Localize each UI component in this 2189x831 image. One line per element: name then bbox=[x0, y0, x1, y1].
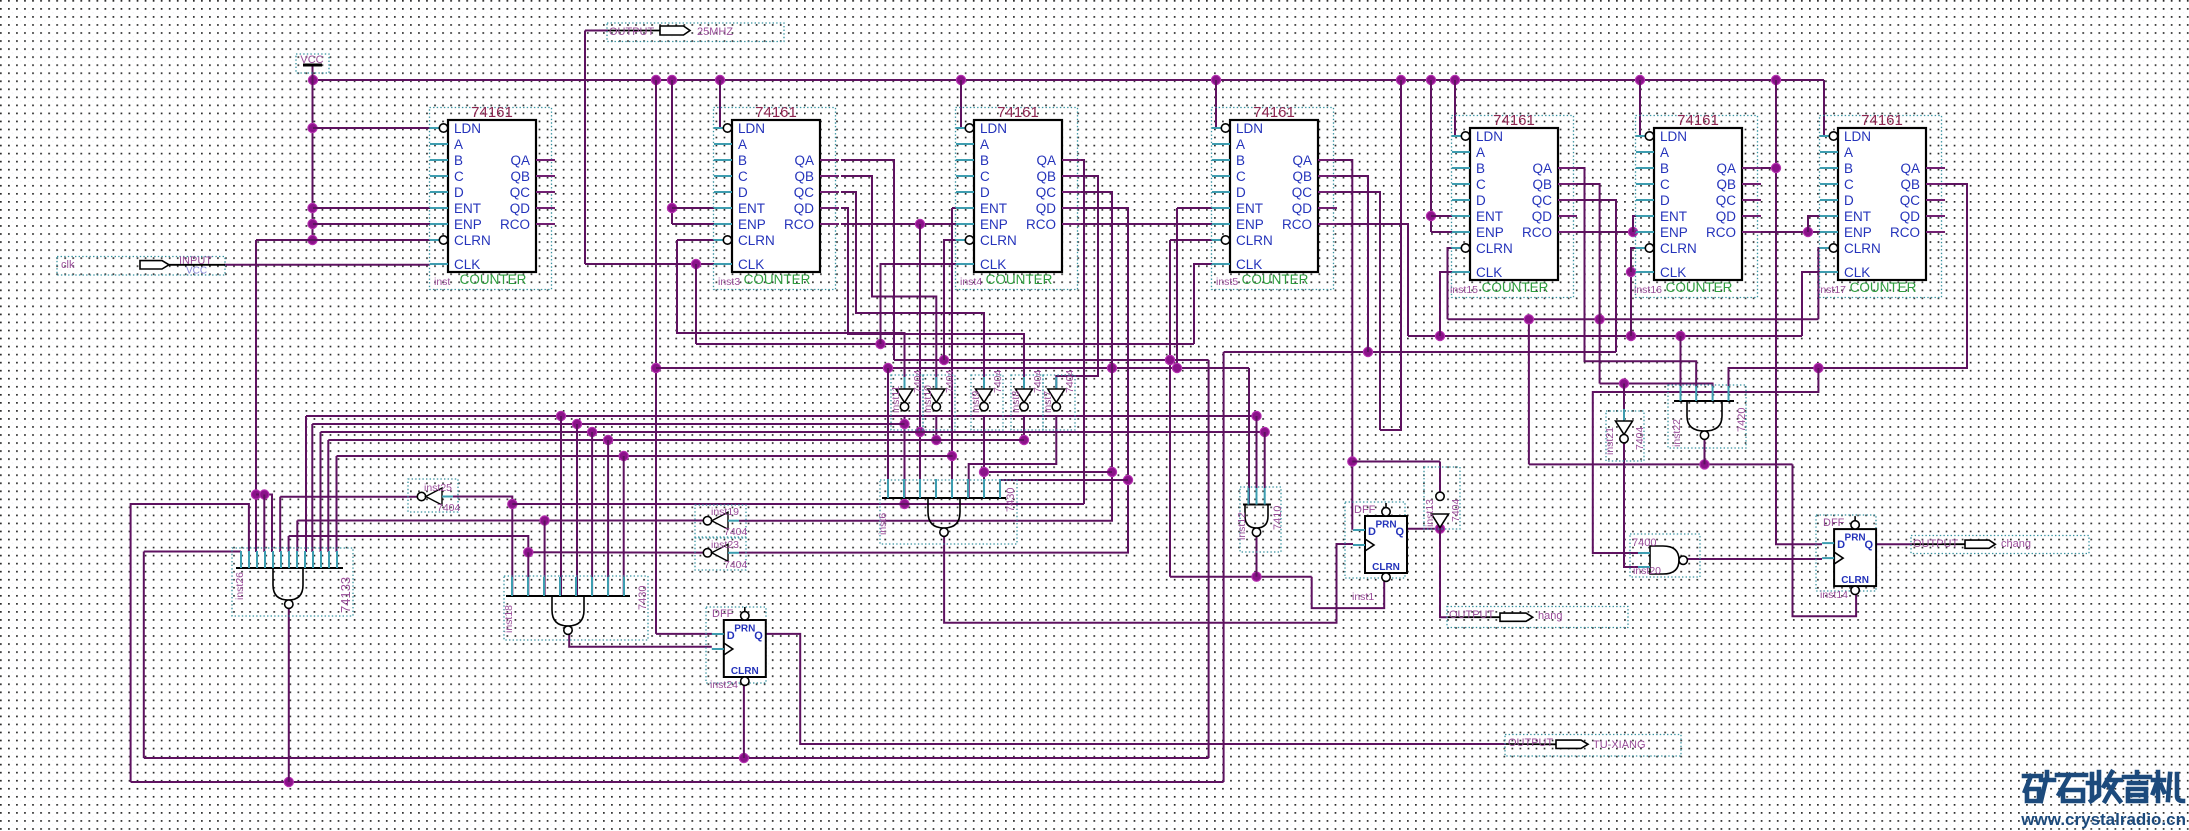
svg-text:inst24: inst24 bbox=[710, 679, 738, 691]
wire QA15 net bbox=[1577, 168, 1696, 387]
wire tuxiang connector lead bbox=[1506, 743, 1556, 745]
junction r368c bbox=[1107, 363, 1116, 372]
svg-text:inst: inst bbox=[434, 276, 450, 288]
wire 74133 out bbox=[288, 608, 290, 782]
svg-text:www.crystalradio.cn: www.crystalradio.cn bbox=[2020, 810, 2186, 829]
wire chang connector lead bbox=[1912, 543, 1965, 545]
svg-text:inst22: inst22 bbox=[1671, 419, 1683, 447]
wire inst12 s3 drop bbox=[1264, 432, 1266, 488]
svg-text:inst14: inst14 bbox=[1820, 589, 1848, 601]
wire row758 bbox=[144, 757, 1209, 759]
wire s4-133 drop bbox=[263, 495, 265, 553]
not 7404 inst21 bbox=[1604, 409, 1646, 461]
wire LDN5 feed bbox=[1216, 80, 1219, 128]
wire ENP3 bbox=[672, 223, 714, 225]
wire row536 bbox=[289, 536, 529, 552]
not 7404 inst8 bbox=[1010, 369, 1044, 430]
wire row576 bbox=[1170, 576, 1312, 578]
wire inst25 out bbox=[280, 496, 417, 498]
wire RCO4-ENP5 bbox=[1081, 223, 1212, 225]
wire riser1224 bbox=[1223, 352, 1225, 782]
wire QA4 net bbox=[1081, 160, 1084, 504]
junction i9 bbox=[979, 467, 988, 476]
wire CLRN1 feed bbox=[256, 239, 437, 241]
wire inst20 out bbox=[1687, 558, 1822, 560]
wire QA5 net bbox=[1337, 160, 1353, 529]
wire inst7 out bbox=[969, 416, 1057, 498]
junction qa16 bbox=[1771, 163, 1780, 172]
not 7404 inst11 bbox=[890, 369, 924, 430]
wire QC3 net bbox=[841, 192, 984, 389]
wire CLRN3 riser bbox=[677, 240, 905, 389]
junction clk3 bbox=[691, 259, 700, 268]
svg-text:DFF: DFF bbox=[1354, 504, 1376, 516]
wire LDN16 feed bbox=[1640, 80, 1643, 136]
wire inst9 out bbox=[983, 416, 985, 498]
wire riser1208 bbox=[1208, 360, 1210, 758]
svg-text:hang: hang bbox=[1538, 610, 1562, 622]
junction clrn24 bbox=[739, 753, 748, 762]
svg-text:7430: 7430 bbox=[637, 586, 649, 610]
junction bus bbox=[1450, 75, 1459, 84]
counter 74161 inst16 bbox=[1634, 112, 1761, 298]
counter 74161 inst5 bbox=[1212, 104, 1338, 290]
wire row344 bbox=[696, 343, 1194, 345]
wire bus loop x1401 bbox=[1380, 80, 1401, 430]
svg-text:clk: clk bbox=[61, 259, 75, 271]
not 7404 inst9 bbox=[970, 369, 1004, 430]
wire clk drop bbox=[695, 264, 697, 344]
junction r319b bbox=[1595, 315, 1604, 324]
wire hang drop bbox=[1440, 529, 1448, 618]
wire inst8 out bbox=[1023, 416, 1025, 440]
wire row464 bbox=[1529, 463, 1793, 465]
wire LDN17 feed bbox=[1824, 80, 1827, 136]
junction r456a bbox=[619, 451, 628, 460]
wire hang connector lead bbox=[1448, 616, 1500, 618]
dff inst1 bbox=[1345, 502, 1407, 603]
svg-text:inst4: inst4 bbox=[960, 276, 982, 288]
wire s2-18 drop bbox=[527, 552, 529, 596]
svg-text:7404: 7404 bbox=[1064, 369, 1076, 393]
wire VCC vertical bbox=[312, 64, 314, 240]
wire RCO5 net bbox=[1337, 224, 1408, 336]
junction vcc bbox=[308, 203, 317, 212]
wire row319 bbox=[1448, 318, 1819, 320]
wire inst25 in bbox=[452, 497, 512, 597]
wire inst19 out row bbox=[297, 520, 703, 522]
svg-text:inst21: inst21 bbox=[1604, 427, 1616, 455]
not 7404 inst23 bbox=[695, 538, 748, 571]
nand 7430 inst6 bbox=[877, 479, 1017, 544]
counter 74161 inst bbox=[430, 104, 556, 290]
wire s4-18 drop bbox=[560, 416, 562, 596]
counter 74161 inst4 bbox=[956, 104, 1082, 290]
wire inst12 s2 drop bbox=[1256, 416, 1258, 488]
svg-text:VCC: VCC bbox=[186, 266, 207, 277]
wire LDN15 feed bbox=[1455, 80, 1459, 136]
junction r336a bbox=[1435, 331, 1444, 340]
wire CLK3 feed bbox=[585, 263, 714, 265]
wire s7-133 drop bbox=[288, 536, 290, 552]
wire CLRN24 drop bbox=[743, 685, 745, 758]
wire inst23 out row bbox=[528, 551, 703, 553]
wire 25MHZ vert bbox=[584, 31, 586, 265]
wire row432h bbox=[321, 431, 1265, 433]
junction bus bbox=[1426, 75, 1435, 84]
svg-text:inst20: inst20 bbox=[1633, 565, 1661, 577]
counter 74161 inst3 bbox=[714, 104, 840, 290]
not 7404 inst7 bbox=[1042, 369, 1076, 430]
wire row424h bbox=[312, 423, 904, 425]
wire outer loop bbox=[131, 504, 249, 782]
junction vcc bbox=[308, 123, 317, 132]
wire Q24 net bbox=[764, 634, 1506, 744]
junction e3 bbox=[667, 203, 676, 212]
junction r360b bbox=[1165, 355, 1174, 364]
wire s6-18 drop bbox=[591, 432, 593, 596]
wire ENT15/ENP15 drop bbox=[1430, 80, 1432, 232]
wire ENP15 bbox=[1431, 231, 1452, 233]
junction bus bbox=[1211, 75, 1220, 84]
wire 25MHZ connector lead bbox=[608, 30, 660, 32]
wire CLK17 riser bbox=[1802, 272, 1821, 336]
junction i22o bbox=[1700, 460, 1709, 469]
wire CLRN4 riser bbox=[944, 240, 967, 360]
wire row360 bbox=[894, 359, 1209, 361]
wire QC4 net bbox=[739, 192, 1112, 521]
wire inst10 out bbox=[935, 416, 937, 440]
VCC power symbol bbox=[296, 54, 329, 73]
junction bus bbox=[667, 75, 676, 84]
dff inst14 bbox=[1816, 515, 1876, 601]
wire CLRN16 riser bbox=[1631, 248, 1641, 272]
svg-text:inst13: inst13 bbox=[1424, 499, 1436, 527]
svg-text:inst11: inst11 bbox=[890, 386, 902, 413]
watermark crystalradio bbox=[2024, 772, 2183, 801]
wire ENP1 feed bbox=[313, 223, 430, 225]
wire QC15 net bbox=[1577, 200, 1616, 352]
wire RCO3-ENP4 bbox=[841, 223, 956, 225]
svg-text:7404: 7404 bbox=[724, 526, 748, 538]
junction bus bbox=[651, 75, 660, 84]
svg-text:7404: 7404 bbox=[1634, 426, 1646, 450]
wire s5-18 drop bbox=[576, 424, 578, 596]
junction r336b bbox=[1626, 331, 1635, 340]
wire NOT13 in bbox=[1439, 514, 1441, 529]
wire D24 feed bbox=[656, 633, 712, 635]
wire QB17 net bbox=[1729, 184, 1968, 387]
wire row782 bbox=[131, 781, 1224, 783]
junction r336c bbox=[1676, 331, 1685, 340]
not 7404 inst25 bbox=[408, 479, 461, 514]
svg-text:inst25: inst25 bbox=[424, 482, 452, 494]
wire s8-18 drop bbox=[623, 456, 625, 596]
wire ENT3/ENP3 drop bbox=[671, 80, 673, 224]
wire QB5 net bbox=[1337, 176, 1368, 352]
junction bus bbox=[1635, 75, 1644, 84]
wire Q14 net bbox=[1876, 543, 1912, 545]
wire s7-18 drop bbox=[607, 440, 609, 596]
wire s8-133 drop bbox=[296, 521, 298, 553]
wire inst12 out bbox=[1256, 536, 1258, 577]
wire inst20 in1 feed bbox=[1593, 368, 1819, 553]
svg-text:inst10: inst10 bbox=[922, 385, 934, 413]
wire ENT15 bbox=[1431, 215, 1452, 217]
junction e16 bbox=[1628, 227, 1637, 236]
svg-text:7404: 7404 bbox=[1032, 369, 1044, 393]
wire row504 right bbox=[512, 503, 1084, 505]
wire row495 bbox=[256, 495, 272, 553]
svg-text:74133: 74133 bbox=[338, 577, 353, 613]
wire LDN3 feed bbox=[720, 80, 728, 128]
junction i10 bbox=[932, 435, 941, 444]
wire inst6 s1 drop bbox=[887, 368, 889, 498]
wire LDN4 feed bbox=[961, 80, 963, 128]
wire row432 bbox=[320, 432, 322, 552]
junction r416a bbox=[556, 411, 565, 420]
wire NOT13 out bbox=[1439, 462, 1441, 493]
svg-text:inst16: inst16 bbox=[1634, 284, 1662, 296]
input connector clk bbox=[57, 255, 225, 277]
wire clk net bbox=[224, 264, 430, 266]
junction q1 bbox=[1435, 524, 1444, 533]
not 7404 inst19 bbox=[695, 505, 748, 538]
wire row456 bbox=[336, 456, 338, 552]
svg-text:7404: 7404 bbox=[992, 369, 1004, 393]
svg-text:25MHZ: 25MHZ bbox=[697, 26, 733, 38]
svg-text:OUTPUT: OUTPUT bbox=[1913, 538, 1959, 550]
svg-text:chang: chang bbox=[2001, 538, 2031, 550]
junction x656 r368 bbox=[651, 363, 660, 372]
svg-text:7404: 7404 bbox=[724, 559, 748, 571]
junction r432a bbox=[588, 427, 597, 436]
wire CLRN1 net drop bbox=[255, 240, 257, 552]
wire ENT5 drop bbox=[1176, 208, 1178, 368]
junction i12o bbox=[1252, 572, 1261, 581]
svg-text:inst19: inst19 bbox=[711, 506, 739, 518]
svg-text:inst9: inst9 bbox=[970, 391, 982, 413]
dff inst24 bbox=[706, 607, 766, 691]
wire CLRN5 riser bbox=[1169, 240, 1171, 577]
nand 7400 inst20 bbox=[1630, 534, 1700, 577]
svg-text:inst1: inst1 bbox=[1352, 591, 1374, 603]
wire row383 bbox=[1600, 384, 1713, 388]
svg-text:inst3: inst3 bbox=[718, 276, 740, 288]
wire CLRN3 net bbox=[677, 239, 719, 241]
wire s3-18 drop bbox=[544, 521, 546, 597]
wire inst12 s1 drop bbox=[1248, 368, 1250, 505]
wire row472 bbox=[984, 471, 1112, 473]
junction bus bbox=[956, 75, 965, 84]
junction enp4 bbox=[915, 219, 924, 228]
wire row416 bbox=[305, 416, 307, 552]
wire CLRN15 riser bbox=[1448, 248, 1463, 319]
wire Q1 net bbox=[1405, 528, 1440, 530]
wire row368 bbox=[656, 367, 1249, 369]
junction e17 bbox=[1803, 227, 1812, 236]
wire ENT5 wire bbox=[1177, 207, 1212, 209]
svg-text:inst17: inst17 bbox=[1818, 284, 1846, 296]
wire QA16 wire bbox=[1761, 167, 1776, 169]
svg-text:inst8: inst8 bbox=[1010, 391, 1022, 413]
wire LDN1 feed bbox=[313, 127, 437, 129]
wire QB15 net bbox=[1577, 184, 1600, 384]
junction r352 bbox=[1363, 347, 1372, 356]
wire row456h bbox=[337, 455, 953, 457]
output connector 25MHZ bbox=[607, 23, 784, 42]
wire inst11 out bbox=[904, 416, 906, 504]
wire inst22 out bbox=[1704, 439, 1706, 464]
nand 7430 inst18 bbox=[503, 576, 649, 640]
junction n1 bbox=[251, 490, 260, 499]
wire inst18 out bbox=[569, 630, 712, 647]
wire VCC bus y80 bbox=[313, 79, 1824, 81]
wire inst21 out bbox=[1624, 442, 1638, 567]
wire row336 bbox=[1408, 335, 1802, 337]
wire CLRN14 path bbox=[1793, 464, 1857, 616]
wire CLRN1f bbox=[1312, 577, 1385, 608]
svg-text:7400: 7400 bbox=[1632, 537, 1656, 549]
wire ENT17 riser bbox=[1808, 216, 1820, 232]
svg-text:inst6: inst6 bbox=[877, 513, 889, 535]
wire D24 net vert x656 bbox=[655, 80, 657, 634]
wire row424 bbox=[311, 424, 313, 552]
wire inner loop bbox=[143, 552, 145, 759]
junction bus bbox=[1396, 75, 1405, 84]
junction r416b bbox=[1252, 411, 1261, 420]
output connector hang bbox=[1447, 607, 1628, 628]
svg-text:inst26: inst26 bbox=[234, 572, 246, 600]
not 7404 inst10 bbox=[922, 369, 956, 430]
junction x952 r456 bbox=[947, 451, 956, 460]
junction vcc bbox=[308, 235, 317, 244]
svg-text:7404: 7404 bbox=[1450, 498, 1462, 522]
wire QB4 net bbox=[1056, 176, 1098, 389]
wire CLRN5 stub wire bbox=[1170, 239, 1222, 241]
junction r344a bbox=[876, 339, 885, 348]
wire RCO16-17 bbox=[1761, 231, 1820, 233]
wire row416h bbox=[306, 415, 1257, 417]
junction i11b bbox=[900, 499, 909, 508]
wire 25MHZ out bbox=[585, 30, 608, 32]
wire ENT16 riser bbox=[1633, 216, 1636, 232]
wire CLK15 riser bbox=[1440, 272, 1452, 336]
wire row480 bbox=[1001, 479, 1128, 481]
junction r432b bbox=[1260, 427, 1269, 436]
wire RCO15-16 bbox=[1577, 231, 1636, 233]
junction i19 bbox=[540, 516, 549, 525]
wire ENT1 feed bbox=[313, 207, 430, 209]
junction e15 bbox=[1426, 211, 1435, 220]
wire QA3 net bbox=[841, 160, 894, 360]
counter 74161 inst15 bbox=[1450, 112, 1577, 298]
counter 74161 inst17 bbox=[1818, 112, 1945, 298]
wire CLRN17 riser bbox=[1818, 248, 1827, 319]
junction d1 bbox=[1348, 457, 1357, 466]
output connector chang bbox=[1911, 536, 2089, 554]
junction r319a bbox=[1524, 315, 1533, 324]
junction qb17 bbox=[1814, 363, 1823, 372]
svg-text:inst15: inst15 bbox=[1450, 284, 1478, 296]
wire s6-133 drop bbox=[279, 497, 281, 552]
wire row440h bbox=[328, 439, 1024, 441]
svg-text:OUTPUT: OUTPUT bbox=[1508, 737, 1554, 749]
nand 74133 inst26 bbox=[232, 548, 353, 616]
wire QD4 net bbox=[739, 208, 1128, 553]
wire inst22 s1 feed bbox=[1680, 336, 1682, 387]
wire QC5 wire bbox=[1337, 192, 1380, 430]
svg-text:OUTPUT: OUTPUT bbox=[609, 26, 655, 38]
wire ENT4 drop bbox=[951, 208, 953, 498]
junction qd4a bbox=[1123, 475, 1132, 484]
wire NOT13 loop bbox=[1352, 461, 1440, 463]
wire QD3 net bbox=[841, 208, 1024, 389]
wire ENT3 bbox=[672, 207, 714, 209]
junction i21 bbox=[1619, 379, 1628, 388]
junction n2 bbox=[260, 490, 269, 499]
svg-text:7404: 7404 bbox=[437, 502, 461, 514]
junction clk16 bbox=[1626, 267, 1635, 276]
junction r360a bbox=[939, 355, 948, 364]
junction i23 bbox=[524, 548, 533, 557]
junction clrn5 bbox=[1165, 355, 1174, 364]
svg-text:inst12: inst12 bbox=[1236, 512, 1248, 540]
not 7404 inst13 bbox=[1424, 467, 1462, 529]
wire CLK5 riser bbox=[1194, 264, 1212, 344]
svg-text:inst5: inst5 bbox=[1216, 276, 1238, 288]
wire row352 bbox=[1224, 351, 1616, 353]
svg-text:DFF: DFF bbox=[1823, 517, 1845, 529]
wire row440 bbox=[327, 440, 329, 552]
svg-text:TU-XIANG: TU-XIANG bbox=[1593, 739, 1646, 751]
wire inst6 out bbox=[944, 537, 1353, 623]
wire QB3 net bbox=[841, 176, 936, 389]
svg-text:7430: 7430 bbox=[1005, 488, 1017, 512]
junction qc4a bbox=[1107, 467, 1116, 476]
junction r424a bbox=[572, 419, 581, 428]
junction i25 bbox=[508, 499, 517, 508]
junction bus bbox=[308, 75, 317, 84]
junction bus bbox=[715, 75, 724, 84]
junction o133 bbox=[284, 777, 293, 786]
svg-text:inst23: inst23 bbox=[711, 539, 739, 551]
wire x920 drop bbox=[919, 224, 921, 498]
junction r368d bbox=[1172, 363, 1181, 372]
wire CLK4 riser bbox=[881, 264, 957, 344]
junction i8 bbox=[1019, 435, 1028, 444]
nand 7420 inst22 bbox=[1668, 385, 1748, 448]
svg-text:inst7: inst7 bbox=[1042, 391, 1054, 413]
svg-text:7404: 7404 bbox=[944, 369, 956, 393]
svg-text:DFF: DFF bbox=[712, 608, 734, 620]
nand 7410 inst12 bbox=[1236, 487, 1284, 552]
wire D14 net vert bbox=[1776, 80, 1822, 544]
junction x920 r432 bbox=[915, 427, 924, 436]
svg-text:7420: 7420 bbox=[1736, 408, 1748, 432]
svg-text:inst18: inst18 bbox=[503, 605, 515, 633]
svg-text:7410: 7410 bbox=[1272, 506, 1284, 530]
wire CLK16 riser bbox=[1631, 272, 1636, 336]
output connector TU-XIANG bbox=[1505, 735, 1681, 757]
svg-text:OUTPUT: OUTPUT bbox=[1449, 609, 1495, 621]
junction bus bbox=[1771, 75, 1780, 84]
junction r440a bbox=[604, 435, 613, 444]
wire riser1529 bbox=[1528, 319, 1530, 464]
junction vcc bbox=[308, 219, 317, 228]
junction r368b bbox=[883, 363, 892, 372]
wire ENT4 wire bbox=[952, 207, 956, 209]
